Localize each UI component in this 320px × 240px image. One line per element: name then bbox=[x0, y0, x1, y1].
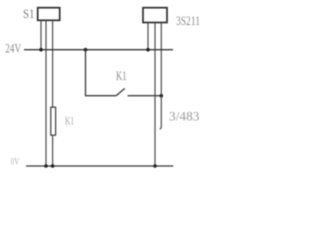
junction contact wire / 3S211 pin3 bbox=[160, 94, 164, 98]
sensor block 3S211 bbox=[143, 8, 167, 23]
wire branch 24V to contact K1 bbox=[86, 50, 117, 96]
wire S1 pin2 down to 0V bbox=[45, 20, 47, 166]
junction 3S211 pin1 / 24V bbox=[146, 48, 150, 52]
svg-text:S1: S1 bbox=[23, 7, 35, 21]
junction branch / 24V bbox=[84, 48, 88, 52]
wire coil K1 to 0V bbox=[52, 135, 54, 166]
wire 3S211 pin3 down to contact node bbox=[160, 23, 162, 97]
junction S1 pin1 / 24V bbox=[39, 48, 43, 52]
switch block S1 bbox=[38, 8, 60, 21]
junction 3S211 pin2 / 0V bbox=[153, 164, 157, 168]
node 24V rail bbox=[24, 49, 173, 51]
wire 3S211 pin1 to 24V bbox=[147, 23, 149, 50]
wire contact K1 to 3S211 pin3 bbox=[128, 95, 162, 97]
wire link to sheet ref 3/483 bbox=[160, 96, 161, 130]
svg-text:3/483: 3/483 bbox=[169, 109, 200, 123]
svg-text:3S211: 3S211 bbox=[176, 14, 200, 28]
contact K1 blade (NO contact) bbox=[116, 88, 125, 95]
junction S1 pin2 / 0V bbox=[44, 164, 48, 168]
svg-text:24V: 24V bbox=[5, 42, 21, 56]
wire 3S211 pin2 down to 0V bbox=[154, 23, 156, 167]
wire S1 pin3 to coil K1 bbox=[52, 20, 54, 107]
svg-text:K1: K1 bbox=[65, 116, 74, 128]
svg-text:0V: 0V bbox=[11, 158, 20, 168]
junction coil K1 / 0V bbox=[51, 164, 55, 168]
relay coil K1 bbox=[51, 107, 56, 135]
node 0V rail bbox=[26, 165, 173, 167]
wire S1 pin1 to 24V bbox=[40, 20, 42, 49]
svg-text:K1: K1 bbox=[116, 69, 127, 83]
